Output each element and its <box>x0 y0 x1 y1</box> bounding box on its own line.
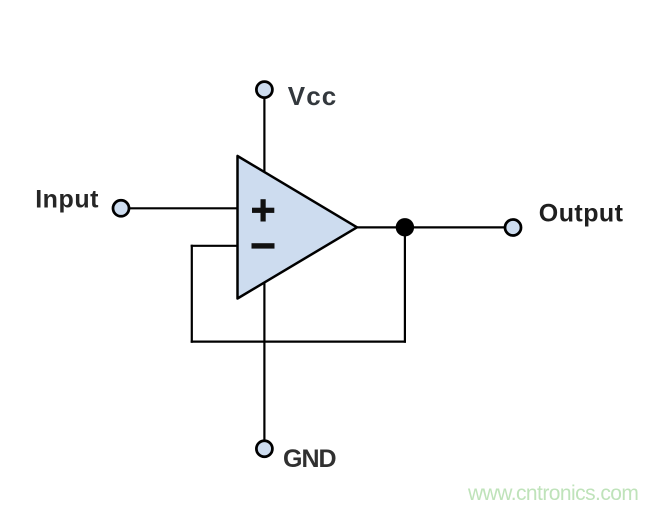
junction node <box>396 218 414 236</box>
svg-text:GND: GND <box>283 445 336 473</box>
wire junction down <box>404 227 406 342</box>
svg-text:Output: Output <box>539 200 624 228</box>
output terminal <box>505 220 521 236</box>
svg-text:Input: Input <box>35 186 99 214</box>
wire op-amp output to output terminal <box>356 226 504 228</box>
wire feedback left vertical <box>191 245 193 343</box>
wire op-amp to GND terminal <box>263 280 265 440</box>
GND terminal <box>256 441 272 457</box>
op-amp U1 <box>238 156 358 299</box>
wire VCC to op-amp <box>263 99 265 174</box>
svg-text:www.cntronics.com: www.cntronics.com <box>467 482 638 505</box>
wire feedback bottom <box>191 341 406 343</box>
VCC terminal <box>256 82 272 98</box>
svg-text:Vcc: Vcc <box>288 81 338 111</box>
wire input to op-amp <box>130 207 238 209</box>
input terminal <box>113 200 129 216</box>
wire feedback to inverting input <box>191 245 238 247</box>
